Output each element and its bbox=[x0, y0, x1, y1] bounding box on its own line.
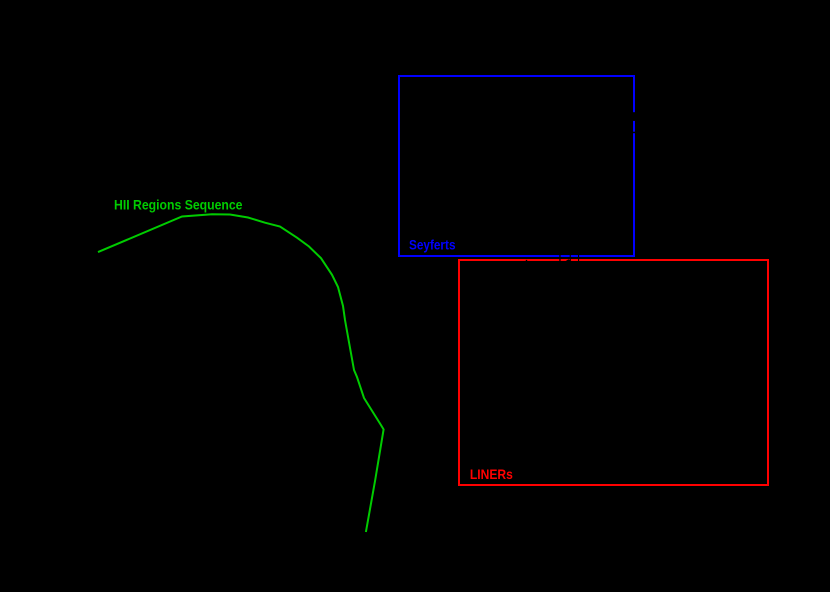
black occluder: small nick on red top edge bbox=[526, 260, 527, 261]
svg-text:Seyferts: Seyferts bbox=[409, 236, 456, 252]
black occluder: vertical bar 2 crossing blue bottom + red top edges bbox=[570, 248, 571, 264]
black occluder: triangular notch in red top edge bbox=[564, 259, 574, 262]
svg-text:LINERs: LINERs bbox=[470, 466, 513, 482]
svg-text:HII Regions Sequence: HII Regions Sequence bbox=[114, 196, 243, 212]
black occluder: vertical bar 3 crossing blue bottom + red top edges bbox=[578, 248, 579, 264]
black occluder: gap on blue right edge (large) bbox=[630, 112, 637, 121]
HII regions sequence curve (green) bbox=[98, 214, 384, 532]
Seyferts box (blue) bbox=[399, 76, 634, 256]
LINERs box (red) bbox=[459, 260, 768, 485]
black occluder: vertical bar 1 crossing blue bottom + red top edges bbox=[559, 248, 560, 264]
black occluder: gap on blue right edge (small) bbox=[630, 132, 637, 134]
